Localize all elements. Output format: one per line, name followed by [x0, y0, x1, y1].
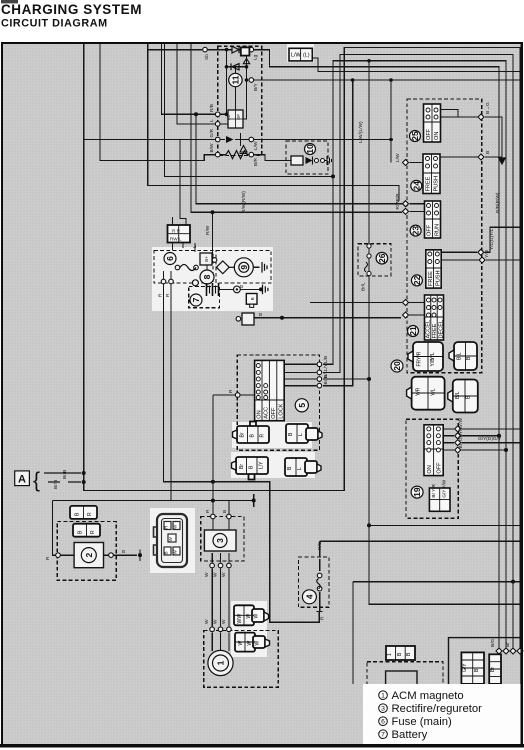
- svg-text:B/L: B/L: [455, 391, 461, 399]
- svg-text:ON: ON: [256, 410, 262, 418]
- svg-text:CIRCUIT DIAGRAM: CIRCUIT DIAGRAM: [1, 18, 108, 30]
- svg-text:G/Y Y/W: G/Y Y/W: [441, 479, 446, 497]
- svg-text:W: W: [221, 619, 227, 624]
- svg-text:OFF: OFF: [427, 224, 433, 236]
- svg-text:R: R: [90, 530, 96, 534]
- svg-text:B/W: B/W: [209, 143, 215, 153]
- svg-text:FREE: FREE: [425, 176, 431, 191]
- svg-text:Br/B: Br/B: [53, 480, 59, 489]
- svg-text:PUSH: PUSH: [434, 176, 440, 192]
- svg-text:9: 9: [239, 265, 249, 270]
- svg-text:G/R: G/R: [209, 128, 215, 137]
- svg-text:25: 25: [410, 131, 420, 141]
- svg-text:10: 10: [305, 144, 315, 154]
- svg-text:L/Y: L/Y: [259, 461, 265, 469]
- svg-text:26: 26: [377, 253, 387, 263]
- svg-text:2: 2: [84, 552, 94, 557]
- svg-text:FREE: FREE: [432, 323, 438, 338]
- svg-text:L: L: [192, 245, 198, 248]
- svg-text:Lg: Lg: [253, 54, 259, 60]
- svg-text:Br/B: Br/B: [323, 375, 329, 384]
- svg-text:R/G: R/G: [317, 541, 323, 550]
- svg-text:1: 1: [387, 653, 393, 656]
- svg-text:B: B: [250, 297, 255, 300]
- svg-text:R: R: [205, 509, 211, 513]
- svg-text:6: 6: [165, 256, 175, 261]
- svg-text:B/Y: B/Y: [253, 82, 259, 91]
- svg-text:Sb: Sb: [204, 54, 210, 60]
- svg-text:W: W: [213, 572, 219, 577]
- svg-text:R: R: [158, 293, 164, 297]
- svg-text:ON: ON: [434, 132, 440, 140]
- svg-text:W: W: [204, 619, 210, 624]
- svg-text:ON: ON: [427, 465, 433, 473]
- svg-text:L/W: L/W: [253, 141, 259, 150]
- svg-text:W: W: [221, 572, 227, 577]
- svg-text:8: 8: [202, 274, 212, 279]
- svg-text:(L): (L): [303, 53, 310, 59]
- svg-text:RUN: RUN: [435, 224, 441, 236]
- svg-text:B/G: B/G: [490, 638, 496, 647]
- svg-text:Br: Br: [490, 667, 496, 672]
- svg-text:24: 24: [411, 181, 421, 191]
- svg-text:3: 3: [381, 706, 385, 713]
- svg-text:B→G: B→G: [485, 102, 491, 114]
- svg-text:Y/W: Y/W: [458, 417, 464, 427]
- svg-text:FR: FR: [417, 359, 423, 366]
- svg-text:20: 20: [392, 361, 402, 371]
- svg-text:Y/B: Y/B: [430, 358, 436, 367]
- svg-text:L/W/(L/W): L/W/(L/W): [358, 121, 364, 143]
- svg-text:CHARGING SYSTEM: CHARGING SYSTEM: [1, 2, 142, 17]
- svg-text:Br: Br: [458, 443, 464, 448]
- svg-text:19: 19: [412, 487, 422, 497]
- svg-text:Y/L(G)Y/L: Y/L(G)Y/L: [489, 228, 495, 250]
- svg-text:Y/G: Y/G: [484, 249, 490, 258]
- svg-text:R: R: [87, 512, 93, 516]
- svg-text:B/R: B/R: [253, 157, 259, 166]
- svg-text:L/Y: L/Y: [323, 363, 329, 371]
- svg-text:R: R: [320, 616, 326, 620]
- svg-text:DECEL: DECEL: [439, 320, 445, 339]
- svg-text:1: 1: [216, 660, 226, 665]
- svg-text:Br: Br: [239, 464, 245, 469]
- svg-text:R/W: R/W: [205, 225, 211, 235]
- svg-text:R: R: [165, 293, 171, 297]
- svg-text:L: L: [209, 119, 215, 122]
- svg-text:R/B: R/B: [209, 104, 215, 112]
- svg-text:W: W: [173, 524, 178, 529]
- svg-text:21: 21: [408, 326, 418, 336]
- svg-text:R/W: R/W: [395, 200, 401, 210]
- svg-text:R: R: [228, 389, 234, 393]
- svg-text:G/Y(D)G/Y: G/Y(D)G/Y: [478, 436, 502, 442]
- svg-text:B: B: [122, 549, 125, 555]
- svg-text:W: W: [255, 641, 261, 646]
- svg-text:23: 23: [411, 226, 421, 236]
- svg-text:B: B: [259, 312, 262, 318]
- svg-text:LE: LE: [226, 115, 231, 120]
- svg-text:ACC: ACC: [264, 407, 270, 419]
- svg-text:L/B: L/B: [323, 356, 329, 363]
- svg-text:ACCEL: ACCEL: [426, 320, 432, 339]
- svg-text:22: 22: [412, 275, 422, 285]
- svg-text:Br/L: Br/L: [361, 282, 367, 291]
- svg-text:B+: B+: [204, 256, 209, 262]
- svg-text:B: B: [222, 510, 228, 513]
- svg-text:Br/B: Br/B: [62, 470, 68, 479]
- svg-text:4: 4: [304, 594, 314, 599]
- svg-text:11: 11: [230, 75, 240, 84]
- svg-text:Y/R: Y/R: [416, 387, 422, 396]
- svg-text:R R: R R: [172, 229, 181, 234]
- svg-text:R/W(R/W): R/W(R/W): [241, 191, 247, 213]
- svg-text:W: W: [237, 619, 243, 624]
- svg-text:R/B(R/W): R/B(R/W): [495, 192, 501, 213]
- svg-text:L: L: [297, 467, 303, 470]
- svg-text:ACM magneto: ACM magneto: [392, 690, 464, 702]
- svg-text:LOCK: LOCK: [279, 403, 285, 419]
- svg-text:W: W: [238, 641, 244, 646]
- svg-text:W: W: [254, 614, 260, 619]
- svg-text:W: W: [213, 619, 219, 624]
- svg-text:6: 6: [381, 719, 385, 726]
- svg-text:3: 3: [215, 538, 225, 543]
- svg-text:Y/L: Y/L: [431, 388, 437, 396]
- svg-text:B: B: [240, 284, 243, 290]
- svg-text:OFF: OFF: [426, 128, 432, 140]
- svg-text:G/Y: G/Y: [462, 663, 468, 672]
- svg-text:L: L: [298, 433, 304, 436]
- svg-text:L/W: L/W: [395, 153, 401, 162]
- svg-text:OF: OF: [236, 114, 241, 120]
- svg-text:B: B: [164, 551, 169, 554]
- svg-text:R: R: [45, 556, 51, 560]
- svg-text:Br: Br: [240, 432, 246, 437]
- svg-text:W: W: [237, 614, 243, 619]
- svg-text:5: 5: [297, 403, 307, 408]
- svg-text:{: {: [33, 469, 40, 492]
- svg-text:OFF: OFF: [437, 462, 443, 474]
- svg-text:1: 1: [381, 693, 385, 700]
- svg-text:Br Y/R: Br Y/R: [431, 483, 436, 497]
- svg-text:Y/R: Y/R: [417, 351, 423, 360]
- svg-text:FREE: FREE: [428, 271, 434, 286]
- svg-text:Br: Br: [505, 642, 511, 647]
- svg-text:Fuse (main): Fuse (main): [392, 716, 453, 728]
- svg-text:PUSH: PUSH: [436, 270, 442, 286]
- svg-text:G/Y: G/Y: [458, 432, 464, 441]
- svg-text:W: W: [168, 537, 173, 542]
- svg-text:OFF: OFF: [271, 407, 277, 419]
- svg-text:B: B: [485, 151, 491, 154]
- svg-text:Battery: Battery: [392, 729, 428, 741]
- svg-text:B/L: B/L: [457, 352, 463, 360]
- svg-text:W: W: [247, 641, 253, 646]
- svg-text:7: 7: [191, 297, 201, 302]
- svg-text:R: R: [260, 434, 266, 438]
- svg-text:L/W: L/W: [291, 53, 301, 59]
- svg-text:RW L: RW L: [170, 237, 182, 242]
- svg-text:W: W: [204, 572, 210, 577]
- svg-text:Rectifire/reguretor: Rectifire/reguretor: [392, 703, 483, 715]
- svg-text:A: A: [18, 474, 26, 486]
- svg-text:W: W: [246, 614, 252, 619]
- svg-text:W: W: [173, 550, 178, 555]
- svg-text:7: 7: [381, 732, 385, 739]
